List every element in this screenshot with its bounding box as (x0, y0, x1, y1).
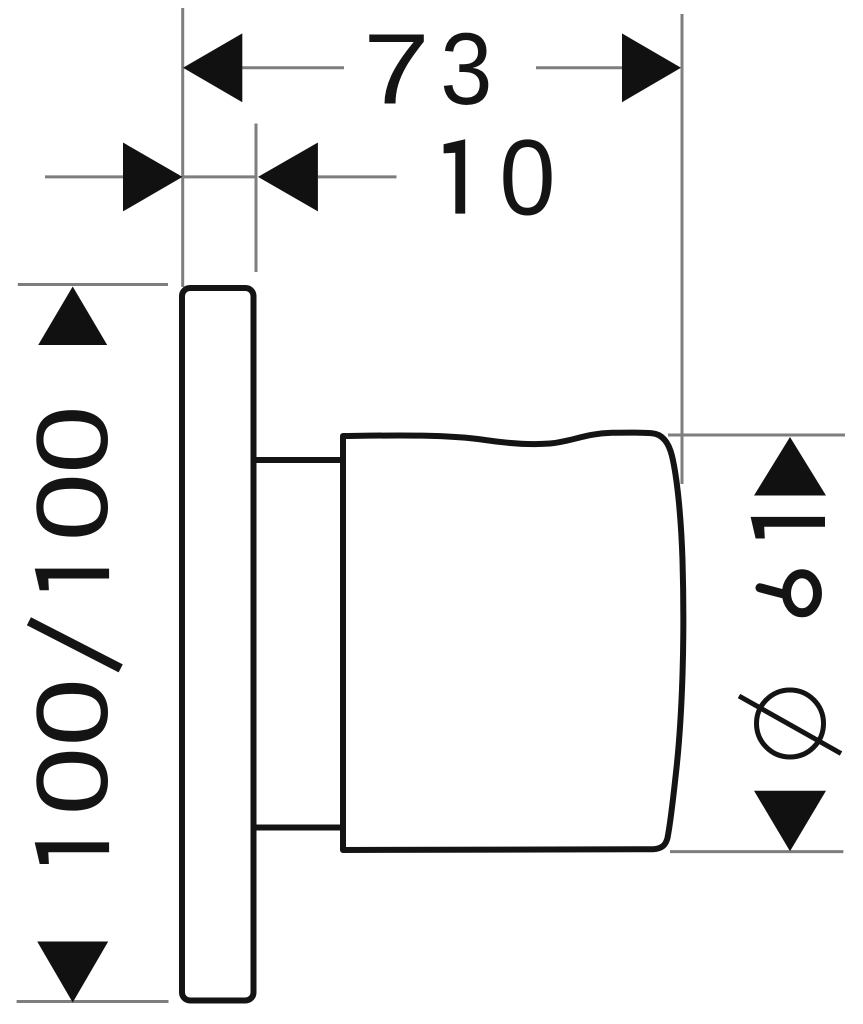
svg-text:0: 0 (16, 405, 129, 474)
dimension line 73 right segment (536, 66, 624, 69)
arrow 100/100 up (38, 287, 107, 346)
label 61 digit 6 (760, 574, 818, 613)
extension line mid (x=256, plate right edge, for dim 10) (255, 124, 258, 273)
dimension line 10 right outer segment (318, 175, 397, 178)
label 10 digit 1 (444, 139, 466, 213)
svg-text:0: 0 (16, 473, 129, 542)
extension line left (x=183, plate left edge, for dim 73 and 10) (181, 8, 184, 287)
label 100/100 char 1 (35, 569, 109, 591)
extension line right-bottom (for dim 61 bottom) (670, 850, 843, 853)
dimension line 10 left outer segment (45, 175, 123, 178)
arrow 100/100 down (37, 942, 108, 1003)
svg-text:0: 0 (499, 117, 555, 238)
svg-text:0: 0 (16, 678, 129, 747)
label 100/100 slash (29, 621, 121, 668)
svg-text:0: 0 (16, 747, 129, 816)
neck bottom line (254, 825, 344, 831)
handle body outline (343, 433, 683, 850)
diameter symbol slash (739, 696, 841, 754)
arrow 73 left (183, 33, 242, 102)
escutcheon plate outline (182, 288, 254, 1001)
label 61 digit 1 (751, 517, 825, 539)
dimension line 10 middle segment (183, 175, 257, 178)
label 100/100 char 1 (bottom) (35, 842, 109, 864)
svg-text:7: 7 (363, 14, 430, 125)
extension line right-top (for dim 61 top) (668, 434, 845, 437)
arrow 61 up (754, 437, 826, 496)
extension line right (x=682, for dim 73) (681, 14, 684, 484)
extension line bottom-left (for dim 100/100 bottom) (17, 1000, 169, 1003)
diameter symbol circle (757, 690, 824, 757)
extension line top-left (for dim 100/100 top) (18, 283, 168, 286)
arrow 61 down (754, 791, 826, 852)
arrow 10 pointing left (258, 143, 318, 212)
svg-text:3: 3 (440, 11, 492, 125)
arrow 73 right (622, 33, 681, 102)
arrow 10 pointing right (123, 143, 183, 212)
neck top line (254, 457, 344, 463)
dimension line 73 left segment (242, 66, 344, 69)
